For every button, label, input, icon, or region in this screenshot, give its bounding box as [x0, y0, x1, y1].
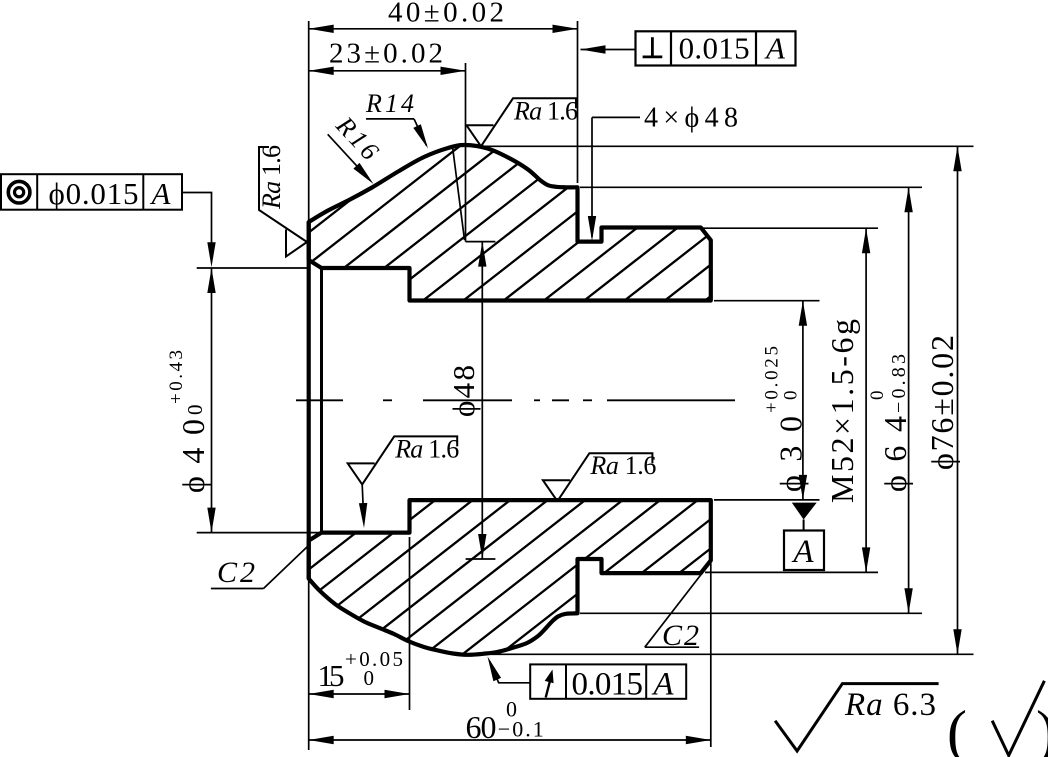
dimension φ40 +0.43/0	[211, 268, 213, 533]
svg-text:ϕ0.015: ϕ0.015	[49, 176, 139, 211]
R14 radius line to centre	[453, 147, 465, 241]
svg-text:Ra 1.6: Ra 1.6	[513, 96, 578, 125]
svg-text:Ra 1.6: Ra 1.6	[394, 434, 459, 463]
dimension 60 0/-0.1	[309, 739, 711, 741]
extension line φ76 bottom	[480, 653, 974, 655]
svg-text:R14: R14	[365, 89, 414, 118]
extension line left face (40/23/15/60 dims)	[308, 21, 310, 750]
surface finish Ra1.6 for φ30 bore	[543, 453, 653, 501]
extension line M52 bottom	[705, 571, 878, 573]
svg-text:+0.05: +0.05	[345, 647, 403, 671]
svg-text:Ra 1.6: Ra 1.6	[589, 451, 656, 480]
svg-text:−0.83: −0.83	[888, 354, 910, 413]
radius label R16	[330, 110, 385, 166]
dimension φ64 0/-0.83	[908, 187, 910, 613]
part outline upper section	[309, 145, 711, 301]
extension line 15 dim x=409.5	[409, 537, 411, 710]
hatching upper cross-section	[176, 140, 952, 305]
svg-text:0: 0	[183, 405, 207, 416]
extension line φ40 top	[197, 267, 310, 269]
extension line φ76 top	[481, 145, 974, 147]
svg-text:ϕ64: ϕ64	[877, 416, 913, 492]
extension line 23 dim / R14 centre	[465, 63, 467, 242]
datum A symbol	[792, 503, 817, 520]
svg-text:C2: C2	[217, 556, 255, 589]
svg-text:15: 15	[318, 658, 345, 693]
extension line φ30 top	[714, 300, 820, 302]
surface finish Ra1.6 on crest	[467, 98, 577, 146]
extension line M52 top	[703, 227, 878, 229]
dimension φ30 +0.025/0	[802, 301, 804, 500]
dimension 40±0.02	[309, 28, 578, 30]
extension line 60 dim x=710.8	[710, 563, 712, 747]
svg-text:0.015: 0.015	[572, 666, 644, 702]
hatching lower cross-section	[80, 495, 817, 660]
extension line φ40 bottom	[197, 532, 324, 534]
dimension φ48	[481, 242, 483, 559]
svg-text:ϕ48: ϕ48	[446, 365, 481, 417]
svg-text:Ra 6.3: Ra 6.3	[844, 687, 936, 723]
svg-text:A: A	[651, 666, 674, 702]
part outline lower section	[309, 500, 711, 655]
centerline (part axis)	[296, 399, 343, 401]
svg-text:ϕ76±0.02: ϕ76±0.02	[924, 335, 960, 470]
left end face silhouette	[307, 222, 311, 579]
svg-text:0: 0	[867, 391, 888, 401]
surface finish Ra1.6 for φ40 bore with leader	[348, 436, 458, 484]
svg-text:ϕ30: ϕ30	[773, 416, 809, 492]
svg-text:+0.43: +0.43	[166, 350, 187, 404]
svg-text:Ra 1.6: Ra 1.6	[257, 145, 286, 210]
svg-text:60: 60	[466, 709, 497, 745]
dimension M52×1.5-6g	[865, 228, 867, 572]
concentricity feature control frame φ0.015 A	[1, 174, 182, 210]
extension line φ64 bottom	[580, 612, 922, 614]
svg-text:M52×1.5-6g: M52×1.5-6g	[824, 319, 860, 503]
extension line φ30 bottom	[714, 499, 820, 501]
svg-text:0: 0	[781, 391, 802, 401]
dimension φ76±0.02	[957, 146, 959, 654]
extension line shoulder x=577.5	[577, 21, 579, 183]
surface finish Ra1.6 on left face (rotated)	[259, 147, 307, 257]
leader of concentricity frame	[182, 193, 212, 263]
svg-text:A: A	[791, 534, 814, 570]
dimension 23±0.02	[309, 70, 466, 72]
leader of perpendicularity frame	[581, 49, 636, 51]
svg-text:(: (	[947, 699, 967, 757]
runout feature control frame 0.015 A	[530, 664, 686, 698]
feature control frame perpendicularity 0.015 A	[636, 31, 796, 65]
svg-text:−0.1: −0.1	[498, 717, 544, 742]
general surface note Ra 6.3	[775, 684, 939, 751]
bore entrance chamfer edge circle	[320, 268, 323, 533]
svg-text:0.015: 0.015	[679, 30, 750, 65]
leader of runout frame	[490, 662, 530, 683]
svg-text:0: 0	[364, 666, 375, 690]
dimension 15 +0.05/0	[309, 693, 410, 695]
svg-text:ϕ40: ϕ40	[175, 419, 211, 493]
svg-text:+0.025: +0.025	[762, 346, 783, 413]
svg-text:A: A	[150, 176, 172, 211]
extension line φ64 top	[580, 186, 922, 188]
svg-text:): )	[1036, 699, 1048, 757]
svg-text:A: A	[764, 30, 786, 65]
